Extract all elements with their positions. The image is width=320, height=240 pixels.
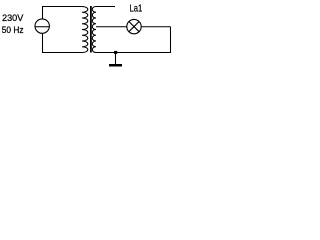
svg-text:50 Hz: 50 Hz xyxy=(2,25,24,36)
svg-text:230V: 230V xyxy=(2,13,24,24)
svg-text:La1: La1 xyxy=(130,4,143,15)
